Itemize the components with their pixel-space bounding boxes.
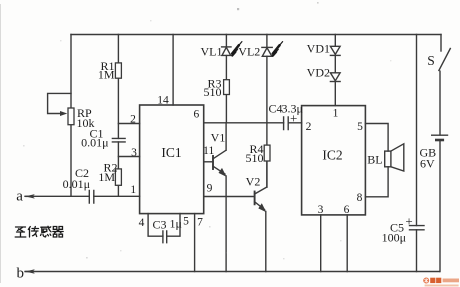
svg-text:5: 5	[183, 216, 189, 228]
svg-text:510: 510	[204, 85, 222, 99]
svg-text:VD2: VD2	[307, 66, 330, 80]
svg-text:S: S	[427, 53, 435, 68]
svg-text:1μ: 1μ	[170, 217, 182, 231]
svg-text:510: 510	[246, 151, 264, 165]
svg-text:3: 3	[318, 204, 324, 216]
svg-text:BL: BL	[367, 153, 382, 167]
svg-text:11: 11	[203, 145, 214, 157]
svg-text:a: a	[16, 189, 23, 205]
svg-text:+: +	[405, 214, 412, 229]
svg-text:7: 7	[197, 217, 203, 229]
svg-text:1: 1	[333, 108, 339, 120]
svg-text:9: 9	[207, 183, 213, 195]
svg-text:3: 3	[131, 147, 137, 159]
svg-text:VD1: VD1	[307, 42, 330, 56]
svg-text:2: 2	[306, 121, 312, 133]
svg-text:IC2: IC2	[322, 148, 342, 163]
svg-text:6V: 6V	[420, 157, 435, 171]
svg-text:6: 6	[344, 204, 350, 216]
svg-text:V2: V2	[246, 175, 261, 189]
svg-text:C3: C3	[153, 218, 167, 232]
svg-text:5: 5	[357, 121, 363, 133]
svg-text:1M: 1M	[98, 68, 115, 82]
svg-text:VL2: VL2	[238, 45, 260, 59]
svg-text:14: 14	[157, 95, 169, 107]
svg-text:6: 6	[194, 109, 200, 121]
svg-text:1M: 1M	[98, 170, 115, 184]
svg-text:1: 1	[130, 184, 136, 196]
svg-text:b: b	[17, 266, 25, 282]
svg-text:4: 4	[139, 217, 145, 229]
svg-text:+: +	[290, 110, 297, 125]
svg-text:C4: C4	[269, 102, 283, 116]
svg-text:0.01μ: 0.01μ	[63, 177, 90, 191]
svg-text:100μ: 100μ	[382, 231, 406, 245]
svg-text:0.01μ: 0.01μ	[81, 136, 108, 150]
svg-text:V1: V1	[211, 131, 226, 145]
svg-text:2: 2	[130, 114, 136, 126]
svg-text:8: 8	[357, 192, 363, 204]
svg-text:VL1: VL1	[201, 45, 223, 59]
svg-text:IC1: IC1	[161, 145, 181, 160]
